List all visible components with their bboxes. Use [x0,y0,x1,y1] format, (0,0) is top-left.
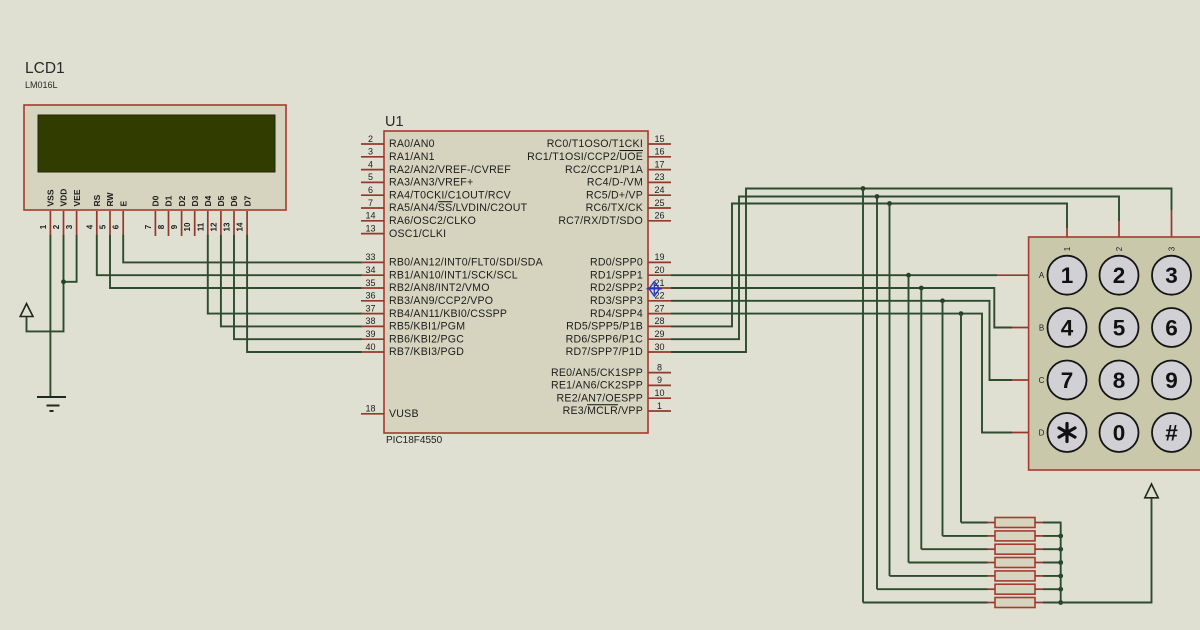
wire feed into resistor R1 [961,522,988,524]
junction dot ROW B branch [919,286,924,291]
origin marker (blue crosshair) at U1 pin 21 [647,282,663,297]
svg-text:RB7/KBI3/PGD: RB7/KBI3/PGD [389,346,464,358]
svg-text:LCD1: LCD1 [25,60,65,77]
svg-text:2: 2 [52,224,61,229]
svg-text:30: 30 [654,342,664,352]
junction dot VEE/VDD [61,279,66,284]
svg-text:36: 36 [365,291,375,301]
svg-text:2: 2 [1115,246,1124,251]
svg-text:RA5/AN4/SS/LVDIN/C2OUT: RA5/AN4/SS/LVDIN/C2OUT [389,202,528,214]
wire feed into resistor R5 [890,575,988,577]
svg-text:E: E [118,201,128,207]
svg-text:7: 7 [1061,368,1074,393]
keypad button 1 [1048,256,1087,295]
svg-text:D: D [1039,428,1045,437]
wire feed into resistor R6 [877,588,988,590]
svg-text:33: 33 [365,252,375,262]
svg-text:RE0/AN5/CK1SPP: RE0/AN5/CK1SPP [551,367,643,379]
keypad button 3 [1152,256,1191,295]
keypad KP1 body [1029,237,1200,470]
wire COL1 branch down to R5 [889,204,891,576]
svg-text:D7: D7 [242,195,252,206]
wire common rail down right side of resistors [1060,523,1062,603]
svg-text:RD0/SPP0: RD0/SPP0 [590,257,643,269]
wire COL2 branch down to R6 [876,197,878,590]
U1 pin 3 (RA1/AN1) stub, number and name [361,156,384,158]
wire resistor R6 to common rail [1043,588,1062,590]
LCD LCD1 screen [38,115,275,172]
keypad row C pin stub [1012,379,1029,381]
keypad button 0 [1100,413,1139,452]
svg-text:10: 10 [183,222,192,231]
U1 pin 5 (RA3/AN3/VREF+) stub, number and name [361,181,384,183]
junction dot rail at R7 [1058,600,1063,605]
svg-text:RD1/SPP1: RD1/SPP1 [590,269,643,281]
svg-text:8: 8 [657,362,662,372]
svg-text:D3: D3 [190,195,200,206]
svg-text:LM016L: LM016L [25,80,58,90]
svg-text:1: 1 [1061,263,1074,288]
svg-text:D4: D4 [203,195,213,206]
wire resistor R2 to common rail [1043,535,1062,537]
U1 pin 17 (RC2/CCP1/P1A) stub, number and name [648,169,671,171]
svg-text:VUSB: VUSB [389,408,419,420]
svg-text:U1: U1 [385,114,404,130]
resistor R5 [988,575,996,577]
wire resistor R1 to common rail [1043,522,1062,524]
junction dot ROW A branch [906,273,911,278]
junction dot rail at R5 [1058,574,1063,579]
wire net ROW D: U1 pin27 RD4 to keypad row D [671,314,1012,433]
junction dot COL2 branch [875,194,880,199]
svg-text:15: 15 [654,134,664,144]
svg-text:28: 28 [654,316,664,326]
ground symbol [37,396,66,398]
svg-text:RA2/AN2/VREF-/CVREF: RA2/AN2/VREF-/CVREF [389,164,511,176]
U1 pin 20 (RD1/SPP1) stub, number and name [648,274,671,276]
svg-text:RC1/T1OSI/CCP2/UOE: RC1/T1OSI/CCP2/UOE [527,151,643,163]
junction dot COL3 branch [861,186,866,191]
wire VDD net: LCD pin2 down, left to power symbol [27,235,64,331]
U1 pin 22 (RD3/SPP3) stub, number and name [648,300,671,302]
svg-text:4: 4 [368,159,373,169]
svg-text:6: 6 [368,185,373,195]
svg-text:3: 3 [65,224,74,229]
svg-text:23: 23 [654,172,664,182]
U1 pin 6 (RA4/T0CKI/C1OUT/RCV) stub, number and name [361,194,384,196]
keypad button 5 [1100,308,1139,347]
U1 pin 21 (RD2/SPP2) stub, number and name [648,287,671,289]
svg-text:D6: D6 [229,195,239,206]
resistor R4 [988,562,996,564]
svg-text:25: 25 [654,198,664,208]
svg-text:37: 37 [365,303,375,313]
svg-text:RB3/AN9/CCP2/VPO: RB3/AN9/CCP2/VPO [389,295,493,307]
svg-text:D0: D0 [151,195,161,206]
svg-text:RB5/KBI1/PGM: RB5/KBI1/PGM [389,321,465,333]
svg-text:20: 20 [654,265,664,275]
svg-text:OSC1/CLKI: OSC1/CLKI [389,228,446,240]
U1 pin 1 (RE3/MCLR/VPP) stub, number and name [648,410,671,412]
svg-text:29: 29 [654,329,664,339]
svg-text:26: 26 [654,211,664,221]
wire rail to power symbol at bottom right [1061,498,1152,603]
svg-text:22: 22 [654,291,664,301]
svg-text:8: 8 [157,224,166,229]
wire net COL1: U1 pin28 RD5 up and right to keypad column 1 [671,204,1067,327]
svg-text:2: 2 [368,134,373,144]
U1 pin 13 (OSC1/CLKI) stub, number and name [361,233,384,235]
wire feed into resistor R7 [863,602,988,604]
svg-text:RS: RS [92,194,102,206]
svg-text:RD2/SPP2: RD2/SPP2 [590,282,643,294]
svg-text:RC6/TX/CK: RC6/TX/CK [586,202,643,214]
wire net E: LCD pin6 to U1 pin33 RB0 [123,235,362,262]
U1 pin 7 (RA5/AN4/SS/LVDIN/C2OUT) stub, number and name [361,207,384,209]
svg-text:7: 7 [368,198,373,208]
U1 pin 30 (RD7/SPP7/P1D) stub, number and name [648,351,671,353]
svg-text:1: 1 [39,224,48,229]
wire ROW B branch down to R3 [920,288,922,549]
svg-text:11: 11 [196,222,205,231]
U1 pin 39 (RB6/KBI2/PGC) stub, number and name [361,338,384,340]
svg-text:2: 2 [1113,263,1126,288]
wire net COL2: U1 pin29 RD6 up and right to keypad column 2 [671,197,1119,340]
svg-text:RE3/MCLR/VPP: RE3/MCLR/VPP [563,405,643,417]
U1 pin 36 (RB3/AN9/CCP2/VPO) stub, number and name [361,300,384,302]
LCD LCD1 body [24,105,286,210]
wire net ROW C: U1 pin22 RD3 to keypad row C [671,301,1012,380]
svg-text:39: 39 [365,329,375,339]
svg-text:38: 38 [365,316,375,326]
svg-text:RD4/SPP4: RD4/SPP4 [590,308,643,320]
svg-text:D5: D5 [216,195,226,206]
resistor R1 [988,522,996,524]
svg-text:RE2/AN7/OESPP: RE2/AN7/OESPP [557,392,643,404]
U1 pin 38 (RB5/KBI1/PGM) stub, number and name [361,325,384,327]
svg-text:A: A [1039,271,1045,280]
svg-text:RB6/KBI2/PGC: RB6/KBI2/PGC [389,333,464,345]
wire resistor R3 to common rail [1043,548,1062,550]
wire resistor R5 to common rail [1043,575,1062,577]
junction dot ROW D branch [959,311,964,316]
svg-text:12: 12 [209,222,218,231]
svg-text:RC0/T1OSO/T1CKI: RC0/T1OSO/T1CKI [547,138,643,150]
power symbol +V near LCD [20,304,33,317]
wire feed into resistor R2 [943,535,988,537]
junction dot rail at R4 [1058,560,1063,565]
U1 pin 19 (RD0/SPP0) stub, number and name [648,261,671,263]
U1 pin 33 (RB0/AN12/INT0/FLT0/SDI/SDA) stub, number and name [361,261,384,263]
svg-text:RD6/SPP6/P1C: RD6/SPP6/P1C [566,333,644,345]
keypad button 9 [1152,361,1191,400]
svg-text:35: 35 [365,278,375,288]
wire net COL3: U1 pin30 RD7 up and right to keypad column 3 [671,189,1172,353]
svg-text:14: 14 [365,211,375,221]
wire net ROW A: U1 pin20 RD1 to keypad row A [671,274,997,276]
wire COL3 branch down to R7 [862,189,864,603]
U1 pin 35 (RB2/AN8/INT2/VMO) stub, number and name [361,287,384,289]
wire VSS net: LCD pin1 down to ground [49,235,51,397]
U1 pin 14 (RA6/OSC2/CLKO) stub, number and name [361,220,384,222]
U1 pin 26 (RC7/RX/DT/SDO) stub, number and name [648,220,671,222]
svg-text:5: 5 [368,172,373,182]
svg-text:19: 19 [654,252,664,262]
svg-text:RE1/AN6/CK2SPP: RE1/AN6/CK2SPP [551,380,643,392]
wire feed into resistor R4 [909,562,988,564]
keypad button * [1048,413,1087,452]
svg-text:3: 3 [1168,246,1177,251]
resistor R7 [988,602,996,604]
svg-text:RC4/D-/VM: RC4/D-/VM [587,177,643,189]
svg-text:D2: D2 [177,195,187,206]
svg-text:RA0/AN0: RA0/AN0 [389,138,435,150]
U1 pin 18 (VUSB) stub, number and name [361,413,384,415]
wire ROW D branch down to R1 [960,314,962,523]
resistor R3 [988,548,996,550]
svg-text:27: 27 [654,303,664,313]
keypad button 7 [1048,361,1087,400]
wire net D5: LCD pin12 to U1 pin38 RB5 [221,235,362,326]
svg-text:B: B [1039,323,1044,332]
svg-text:RB0/AN12/INT0/FLT0/SDI/SDA: RB0/AN12/INT0/FLT0/SDI/SDA [389,257,544,269]
keypad row D pin stub [1012,432,1029,434]
U1 pin 16 (RC1/T1OSI/CCP2/UOE) stub, number and name [648,156,671,158]
wire net RW: LCD pin5 to U1 pin35 RB2 [110,235,362,288]
svg-text:6: 6 [1165,316,1178,341]
junction dot COL1 branch [887,201,892,206]
U1 pin 23 (RC4/D-/VM) stub, number and name [648,181,671,183]
wire resistor R7 to common rail [1043,602,1062,604]
svg-text:16: 16 [654,147,664,157]
svg-text:8: 8 [1113,368,1126,393]
svg-text:RA6/OSC2/CLKO: RA6/OSC2/CLKO [389,215,476,227]
U1 pin 4 (RA2/AN2/VREF-/CVREF) stub, number and name [361,169,384,171]
U1 pin 37 (RB4/AN11/KBI0/CSSPP) stub, number and name [361,313,384,315]
svg-text:VSS: VSS [46,189,56,206]
svg-text:RD5/SPP5/P1B: RD5/SPP5/P1B [566,321,643,333]
wire net RS: LCD pin4 to U1 pin34 RB1 [97,235,362,275]
keypad row B pin stub [1012,327,1029,329]
svg-text:18: 18 [365,404,375,414]
keypad row A pin stub [997,274,1029,276]
svg-text:RB4/AN11/KBI0/CSSPP: RB4/AN11/KBI0/CSSPP [389,308,507,320]
svg-text:34: 34 [365,265,375,275]
svg-text:#: # [1165,421,1178,446]
svg-text:VDD: VDD [59,189,69,207]
svg-text:40: 40 [365,342,375,352]
keypad column 3 pin stub [1171,210,1173,237]
U1 pin 8 (RE0/AN5/CK1SPP) stub, number and name [648,372,671,374]
svg-text:9: 9 [657,375,662,385]
svg-text:RC5/D+/VP: RC5/D+/VP [586,189,643,201]
svg-text:3: 3 [1165,263,1178,288]
svg-text:PIC18F4550: PIC18F4550 [386,435,443,446]
keypad button 8 [1100,361,1139,400]
junction dot rail at R3 [1058,547,1063,552]
microcontroller U1 body [384,131,648,433]
keypad button 2 [1100,256,1139,295]
svg-text:0: 0 [1113,421,1126,446]
svg-text:24: 24 [654,185,664,195]
svg-text:4: 4 [1061,316,1074,341]
keypad column 2 pin stub [1118,221,1120,237]
svg-text:17: 17 [654,159,664,169]
junction dot rail at R2 [1058,534,1063,539]
svg-text:9: 9 [170,224,179,229]
svg-text:RA4/T0CKI/C1OUT/RCV: RA4/T0CKI/C1OUT/RCV [389,189,512,201]
keypad button # [1152,413,1191,452]
svg-text:D1: D1 [164,195,174,206]
svg-text:RA1/AN1: RA1/AN1 [389,151,435,163]
svg-text:7: 7 [144,224,153,229]
svg-text:10: 10 [654,388,664,398]
U1 pin 2 (RA0/AN0) stub, number and name [361,143,384,145]
resistor R2 [988,535,996,537]
wire VEE net: LCD pin3 down and left to VDD net [64,235,77,282]
svg-text:14: 14 [236,222,245,231]
junction dot rail at R6 [1058,587,1063,592]
svg-text:9: 9 [1165,368,1178,393]
wire net ROW B: U1 pin21 RD2 to keypad row B [671,288,1012,328]
U1 pin 29 (RD6/SPP6/P1C) stub, number and name [648,338,671,340]
svg-text:13: 13 [365,223,375,233]
keypad button 4 [1048,308,1087,347]
wire net D4: LCD pin11 to U1 pin37 RB4 [208,235,362,314]
svg-text:13: 13 [223,222,232,231]
svg-text:4: 4 [85,224,94,229]
svg-text:5: 5 [99,224,108,229]
svg-text:RC7/RX/DT/SDO: RC7/RX/DT/SDO [558,215,643,227]
svg-text:RB2/AN8/INT2/VMO: RB2/AN8/INT2/VMO [389,282,490,294]
svg-text:RA3/AN3/VREF+: RA3/AN3/VREF+ [389,177,473,189]
svg-text:RC2/CCP1/P1A: RC2/CCP1/P1A [565,164,644,176]
svg-text:1: 1 [657,401,662,411]
resistor R6 [988,588,996,590]
U1 pin 24 (RC5/D+/VP) stub, number and name [648,194,671,196]
keypad column 1 pin stub [1066,228,1068,237]
wire net D6: LCD pin13 to U1 pin39 RB6 [234,235,362,339]
U1 pin 25 (RC6/TX/CK) stub, number and name [648,207,671,209]
svg-text:RD7/SPP7/P1D: RD7/SPP7/P1D [566,346,644,358]
svg-text:RW: RW [105,192,115,207]
U1 pin 9 (RE1/AN6/CK2SPP) stub, number and name [648,384,671,386]
svg-text:5: 5 [1113,316,1126,341]
keypad button 6 [1152,308,1191,347]
wire resistor R4 to common rail [1043,562,1062,564]
wire feed into resistor R3 [921,548,987,550]
svg-text:VEE: VEE [72,189,82,206]
svg-text:1: 1 [1063,246,1072,251]
U1 pin 10 (RE2/AN7/OESPP) stub, number and name [648,397,671,399]
svg-text:C: C [1039,376,1045,385]
svg-text:RB1/AN10/INT1/SCK/SCL: RB1/AN10/INT1/SCK/SCL [389,269,518,281]
svg-text:3: 3 [368,147,373,157]
U1 pin 28 (RD5/SPP5/P1B) stub, number and name [648,325,671,327]
wire net D7: LCD pin14 to U1 pin40 RB7 [247,235,362,352]
wire ROW C branch down to R2 [942,301,944,536]
junction dot ROW C branch [940,298,945,303]
U1 pin 40 (RB7/KBI3/PGD) stub, number and name [361,351,384,353]
svg-text:RD3/SPP3: RD3/SPP3 [590,295,643,307]
svg-text:6: 6 [112,224,121,229]
power symbol +V near resistors [1145,484,1158,498]
U1 pin 27 (RD4/SPP4) stub, number and name [648,313,671,315]
wire ROW A branch down to R4 [908,275,910,562]
U1 pin 34 (RB1/AN10/INT1/SCK/SCL) stub, number and name [361,274,384,276]
U1 pin 15 (RC0/T1OSO/T1CKI) stub, number and name [648,143,671,145]
